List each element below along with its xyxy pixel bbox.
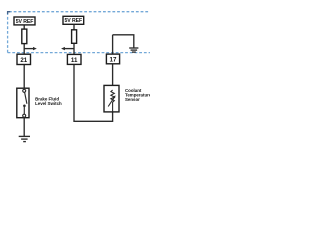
svg-text:17: 17 xyxy=(110,57,117,64)
svg-text:21: 21 xyxy=(20,57,27,64)
svg-text:5V REF: 5V REF xyxy=(65,18,83,24)
svg-text:5V REF: 5V REF xyxy=(16,19,34,25)
svg-text:Level Switch: Level Switch xyxy=(35,101,62,106)
svg-text:Sensor: Sensor xyxy=(125,97,140,102)
svg-text:11: 11 xyxy=(71,57,78,64)
